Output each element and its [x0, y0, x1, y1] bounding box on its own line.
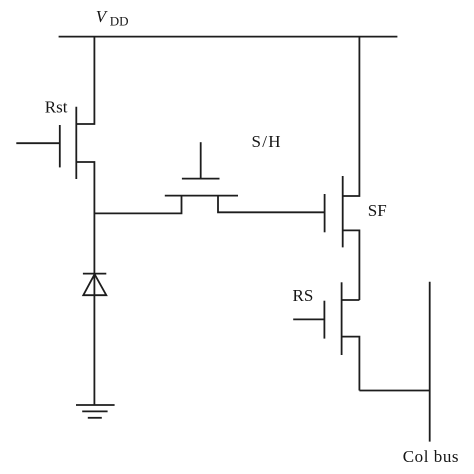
wire column bus vertical	[429, 282, 431, 442]
transistor Q3 SF: channel bar	[342, 176, 344, 247]
transistor Q4 RS: source stub wire	[342, 337, 360, 391]
svg-text:SF: SF	[368, 201, 387, 220]
transistor Q4 RS: gate bar	[323, 301, 325, 339]
wire VDD top rail	[59, 36, 398, 38]
transistor Q1 Rst: gate lead wire	[16, 142, 60, 144]
svg-text:RS: RS	[293, 286, 314, 305]
transistor Q2 S/H: channel bar	[165, 195, 238, 197]
wire node line left (Rst source to S/H source)	[94, 196, 181, 214]
svg-text:Col bus: Col bus	[403, 447, 459, 466]
svg-text:V: V	[96, 7, 109, 26]
wire VDD rail to Rst drain	[76, 37, 94, 124]
label SF	[368, 201, 387, 220]
svg-text:Rst: Rst	[45, 98, 68, 117]
svg-text:DD: DD	[110, 13, 129, 28]
transistor Q4 RS: gate lead wire	[293, 318, 324, 320]
label S/H	[252, 132, 282, 151]
transistor Q1 Rst: source stub wire, down through photodiode to ground	[76, 162, 94, 405]
transistor Q1 Rst: gate bar	[59, 125, 61, 167]
label Rst	[45, 98, 68, 117]
svg-text:S/H: S/H	[252, 132, 282, 151]
node VDD label	[96, 7, 129, 29]
label RS	[293, 286, 314, 305]
photodiode D1: triangle anode	[83, 274, 106, 295]
transistor Q3 SF: gate bar	[324, 194, 326, 232]
label Col bus	[403, 447, 459, 466]
photodiode D1: cathode bar	[83, 273, 106, 275]
transistor Q4 RS: drain stub wire	[342, 299, 360, 301]
ground symbol	[76, 404, 115, 406]
transistor Q2 S/H: drain stub wire	[218, 196, 325, 213]
transistor Q2 S/H: gate bar	[182, 178, 220, 180]
transistor Q2 S/H: gate lead wire	[200, 142, 202, 178]
transistor Q3 SF: source stub wire	[343, 230, 360, 300]
transistor Q4 RS: channel bar	[341, 282, 343, 355]
transistor Q3 SF: drain stub wire from VDD rail	[343, 37, 360, 196]
wire RS source to column bus	[359, 390, 429, 392]
transistor Q1 Rst: channel bar	[75, 107, 77, 179]
